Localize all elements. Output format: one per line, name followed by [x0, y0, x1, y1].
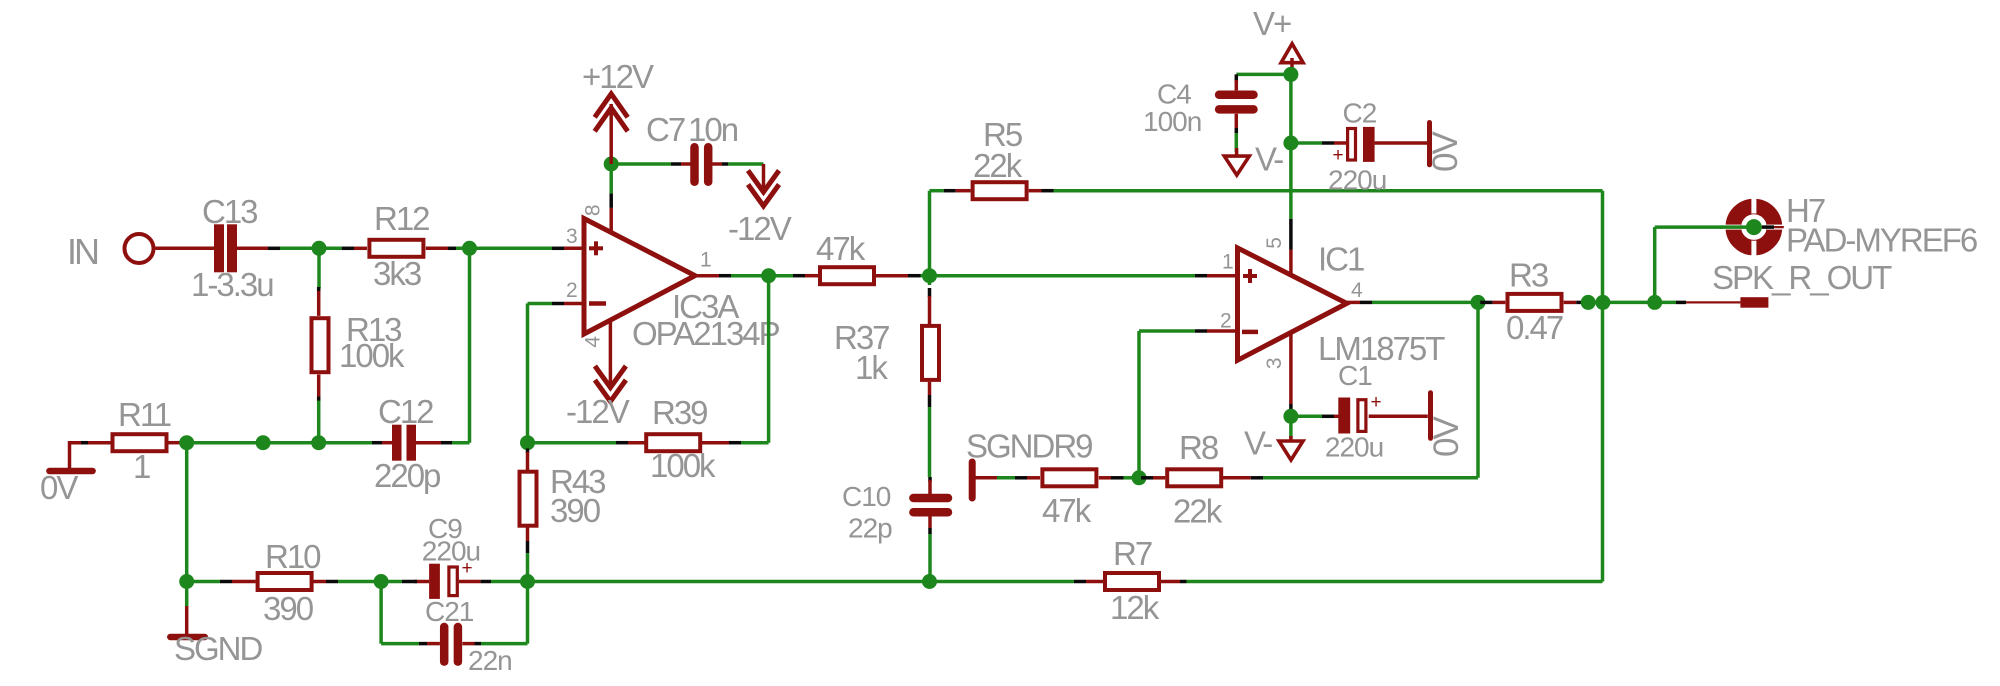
svg-text:-12V: -12V — [566, 393, 630, 430]
wire C21 left horizontal — [381, 642, 419, 646]
svg-text:R12: R12 — [374, 200, 429, 237]
terminal SPK_R_OUT stub — [1740, 297, 1768, 308]
svg-text:22k: 22k — [973, 147, 1023, 184]
pin C9 left — [414, 580, 429, 584]
svg-text:5: 5 — [1263, 238, 1286, 249]
junction C9 right node — [520, 574, 535, 589]
wire C4 to V- arrow — [1235, 133, 1239, 152]
pin C13 right — [237, 247, 268, 251]
wire node A up to R5 — [928, 191, 932, 276]
svg-text:0V: 0V — [1427, 416, 1466, 457]
ground SGND right symbol — [969, 462, 976, 498]
svg-text:2: 2 — [1220, 310, 1231, 333]
wire bottom rail to R7 — [930, 580, 1075, 584]
pin R43 bottom — [526, 528, 530, 542]
pin R3 right — [1564, 301, 1577, 305]
junction R11 node — [179, 435, 194, 450]
wire pin8 to V+ junction — [609, 164, 613, 193]
wire pin2 down to R39 node — [526, 304, 530, 443]
svg-text:22n: 22n — [468, 645, 512, 676]
wire into pad center — [1720, 225, 1754, 229]
capacitor C12 — [392, 425, 416, 461]
wire C12 to R12 node — [452, 441, 470, 445]
wire R3 to rail junction — [1589, 301, 1676, 305]
supply 0V right of C2 — [1427, 123, 1432, 165]
junction C10 bottom rail — [922, 574, 937, 589]
pin IC1 4 stub — [1347, 301, 1360, 305]
capacitor C21 — [444, 627, 458, 662]
svg-text:3: 3 — [566, 225, 577, 248]
svg-text:R39: R39 — [652, 394, 707, 431]
pin R5 right — [1029, 189, 1042, 193]
svg-text:4: 4 — [1351, 279, 1363, 302]
svg-text:3: 3 — [1263, 358, 1286, 369]
junction on lower rail — [256, 435, 271, 450]
svg-text:C4: C4 — [1157, 79, 1191, 110]
wire R13 to lower rail — [317, 401, 321, 443]
supply V- below pin3 — [1279, 436, 1303, 460]
svg-text:220p: 220p — [374, 457, 440, 494]
wire to IC1 pin2 — [1139, 329, 1195, 333]
pin IC1 5 stub — [1289, 250, 1293, 277]
wire R10 to C9 node — [338, 580, 402, 584]
svg-text:0V: 0V — [1426, 131, 1465, 172]
wire IN to C13 — [156, 247, 215, 251]
wire H7 branch right — [1655, 225, 1723, 229]
pin 8 stub — [609, 208, 613, 233]
wire junction to C2 — [1291, 141, 1322, 145]
wire 0V to R11 — [70, 441, 112, 445]
wire down to C21 line — [379, 582, 383, 644]
resistor R5 — [973, 182, 1027, 199]
svg-text:V-: V- — [1244, 425, 1272, 462]
svg-text:C13: C13 — [202, 193, 257, 230]
junction opamp output — [761, 268, 776, 283]
wire output to R3 — [1372, 301, 1480, 305]
svg-text:-12V: -12V — [728, 210, 792, 247]
svg-text:R10: R10 — [265, 538, 321, 575]
junction pad center — [1746, 219, 1762, 235]
wire junction down to C12 right — [468, 248, 472, 442]
pin IC1 3 stub — [1289, 333, 1293, 405]
resistor R8 — [1167, 469, 1221, 486]
pin C21 right — [462, 642, 474, 646]
svg-text:390: 390 — [550, 492, 601, 529]
svg-text:1k: 1k — [855, 349, 888, 386]
svg-text:R7: R7 — [1113, 535, 1152, 572]
wire feedback vertical up — [1476, 302, 1480, 477]
node A junction — [922, 268, 937, 283]
overlap C10 top — [928, 477, 932, 482]
junction R13 lower rail — [311, 435, 326, 450]
wire R9 to junction — [1124, 476, 1140, 480]
wire lower rail — [187, 441, 372, 445]
overlap pin8 — [609, 193, 613, 208]
pin 4 stub — [609, 320, 613, 365]
resistor R11 — [113, 434, 167, 451]
supply -12V arrow below — [595, 365, 626, 402]
overlap SPK — [1676, 301, 1686, 305]
junction after R3 — [1581, 295, 1596, 310]
pin R39 right — [701, 441, 729, 445]
svg-text:C12: C12 — [378, 393, 433, 430]
wire node down to R13 — [317, 255, 321, 289]
svg-text:1: 1 — [1222, 250, 1233, 273]
svg-text:+12V: +12V — [582, 58, 654, 95]
wire to pin3 — [456, 247, 552, 251]
svg-text:2: 2 — [566, 279, 577, 302]
pin R7 left — [1074, 580, 1086, 584]
wire C7 to -12V — [728, 162, 763, 166]
wire junction down to V- — [1289, 423, 1293, 439]
pin R12 left — [342, 247, 354, 251]
pin C2 right — [1375, 141, 1427, 145]
wire pin2 left — [528, 302, 553, 306]
junction SGND node — [179, 574, 194, 589]
svg-text:0.47: 0.47 — [1506, 309, 1563, 346]
svg-text:12k: 12k — [1110, 589, 1160, 626]
pin R43 top — [526, 449, 530, 454]
pin 2 stub — [552, 302, 564, 306]
pin C10 top — [928, 480, 932, 495]
resistor R43 — [520, 472, 537, 526]
wire R5 to right corner (top rail) — [1054, 189, 1603, 193]
svg-text:0V: 0V — [40, 469, 78, 506]
pin R39 left — [616, 441, 628, 445]
svg-text:1-3.3u: 1-3.3u — [191, 266, 273, 303]
wire node A to R37 — [928, 276, 932, 285]
supply 0V symbol — [49, 468, 92, 475]
svg-text:SGNDR9: SGNDR9 — [966, 428, 1092, 465]
pin R37 bottom — [928, 382, 932, 395]
pin H7 thin line — [1754, 226, 1784, 228]
wire R43 to bottom rail — [526, 553, 530, 644]
svg-text:47k: 47k — [1042, 492, 1092, 529]
svg-text:100k: 100k — [650, 447, 716, 484]
pin SGND — [185, 606, 189, 634]
svg-text:SGND: SGND — [174, 630, 263, 667]
svg-text:220u: 220u — [1325, 432, 1383, 463]
pin R37 top — [928, 288, 932, 297]
junction V+ node — [1283, 67, 1298, 82]
svg-text:PAD-MYREF6: PAD-MYREF6 — [1786, 222, 1977, 259]
pin C1 left — [1322, 415, 1334, 419]
wire R37 to C10 — [928, 407, 932, 477]
svg-text:R11: R11 — [118, 396, 171, 433]
svg-text:220u: 220u — [422, 536, 480, 567]
pin C21 left — [419, 642, 427, 646]
capacitor C10 — [913, 498, 948, 512]
pin R13 top — [317, 287, 321, 292]
wire C9 to node — [491, 580, 528, 584]
svg-text:220u: 220u — [1328, 165, 1386, 196]
svg-text:1: 1 — [133, 448, 150, 485]
pin R10 left — [220, 580, 232, 584]
pin R9 left — [1015, 476, 1027, 480]
ground SGND symbol — [170, 634, 205, 641]
resistor R13 — [312, 318, 329, 372]
wire SGND to R9 — [997, 476, 1015, 480]
svg-text:R3: R3 — [1509, 257, 1548, 294]
svg-text:390: 390 — [263, 590, 314, 627]
svg-text:V+: V+ — [1253, 5, 1291, 42]
resistor R39 — [646, 434, 700, 451]
svg-text:47k: 47k — [816, 230, 866, 267]
capacitor C2 — [1333, 127, 1375, 166]
junction output rail — [1595, 295, 1610, 310]
svg-text:10n: 10n — [688, 111, 738, 148]
wire right vertical rail — [1601, 191, 1605, 582]
pin R9 right — [1099, 476, 1111, 480]
svg-text:C10: C10 — [842, 481, 891, 512]
wire node A to IC1 pin1 — [930, 274, 1196, 278]
wire R12 to opamp node — [456, 247, 552, 251]
junction C1 node — [1283, 409, 1298, 424]
node junction at R12 input — [312, 241, 327, 256]
svg-text:22k: 22k — [1173, 493, 1223, 530]
capacitor C4 — [1219, 95, 1253, 110]
resistor R9 — [1042, 469, 1096, 486]
wire C13 to node — [280, 247, 342, 251]
wire SPK thin — [1686, 301, 1740, 303]
pin IC1 1 stub — [1195, 274, 1207, 278]
pin R11 right — [168, 441, 181, 445]
op-amp IC3A — [584, 219, 695, 335]
pin R12 right — [426, 247, 448, 251]
svg-text:C2: C2 — [1343, 98, 1377, 129]
pin R8 right — [1223, 476, 1251, 480]
wire bottom rail middle — [528, 580, 930, 584]
svg-text:R8: R8 — [1179, 429, 1218, 466]
wire R8 to feedback vertical — [1263, 476, 1478, 480]
junction C2 node — [1283, 136, 1298, 151]
pin SGND right — [975, 476, 997, 480]
wire SGND stub — [185, 582, 189, 607]
junction feedback takeoff — [1471, 295, 1486, 310]
supply V- below C4 — [1224, 148, 1249, 175]
pin R8 left — [1141, 476, 1153, 480]
wire junction to C7 — [618, 162, 671, 166]
supply V+ symbol — [1281, 44, 1303, 75]
junction R12 output — [462, 241, 477, 256]
resistor R10 — [258, 573, 312, 590]
pin C4 top — [1235, 74, 1239, 82]
supply +12V arrow — [595, 94, 628, 164]
wire corner to R5 left — [930, 189, 944, 193]
resistor R3 — [1508, 294, 1562, 311]
pin R3 left — [1480, 301, 1493, 305]
junction overlap — [268, 247, 280, 251]
svg-text:SPK_R_OUT: SPK_R_OUT — [1712, 259, 1892, 296]
resistor 47k — [820, 267, 874, 284]
wire node to R39 — [528, 441, 617, 445]
svg-text:IN: IN — [67, 231, 98, 272]
pad H7 — [1724, 197, 1784, 258]
capacitor C9 — [429, 558, 473, 599]
pin IC1 2 stub — [1195, 329, 1207, 333]
svg-text:100n: 100n — [1143, 106, 1201, 137]
pin C12 right — [416, 441, 441, 445]
wire H7 branch up — [1653, 227, 1657, 302]
op-amp IC1 — [1238, 248, 1347, 360]
wire R11 node down — [185, 443, 189, 582]
overlap — [81, 441, 88, 445]
overlap pad — [1762, 225, 1774, 229]
wire C10 to bottom rail — [928, 534, 932, 582]
resistor R7 — [1105, 573, 1159, 590]
capacitor C7 — [695, 147, 709, 181]
pin C9 right — [459, 580, 481, 584]
svg-text:22p: 22p — [848, 513, 892, 544]
junction +12V node — [604, 157, 619, 172]
pin 1 stub — [695, 274, 719, 278]
resistor R12 — [369, 240, 423, 257]
wire R39 to output vertical — [741, 441, 769, 445]
junction H7 branch — [1647, 295, 1662, 310]
pin C4 bottom — [1235, 114, 1239, 128]
supply 0V right of C1 — [1428, 393, 1433, 439]
pin C12 left — [372, 441, 382, 445]
pin C7 left — [671, 162, 681, 166]
wire junction to C1 — [1291, 415, 1322, 419]
pin C2 left — [1322, 141, 1334, 145]
svg-text:100k: 100k — [339, 337, 405, 374]
wire C21 to right vertical — [481, 642, 528, 646]
pin C7 right — [712, 162, 722, 166]
pin 3 stub — [552, 247, 564, 251]
capacitor C1 — [1338, 392, 1381, 434]
pin R7 right — [1161, 580, 1181, 584]
wire R7 to right rail — [1187, 580, 1603, 584]
svg-text:C21: C21 — [425, 596, 474, 627]
pin R13 bottom — [317, 375, 321, 397]
pin 47k right — [876, 274, 908, 278]
resistor R37 — [922, 326, 939, 380]
svg-text:C1: C1 — [1338, 360, 1372, 391]
wire V+ down — [1289, 74, 1293, 219]
wire V+ to C4 — [1236, 73, 1291, 77]
svg-text:+: + — [1333, 145, 1344, 166]
pin 47k left — [793, 274, 805, 278]
junction feedback node — [1132, 470, 1147, 485]
svg-text:3k3: 3k3 — [373, 255, 421, 292]
junction C9 left node — [374, 574, 389, 589]
svg-text:C7: C7 — [646, 111, 685, 148]
wire junction up to IC1 pin2 — [1137, 331, 1141, 478]
wire junction down to R39 right — [767, 276, 771, 443]
connector IN pad circle — [125, 234, 154, 263]
pin C10 bottom — [928, 517, 932, 529]
capacitor C13 — [214, 224, 237, 272]
pin R5 left — [944, 189, 956, 193]
svg-text:IC1: IC1 — [1318, 241, 1364, 278]
svg-text:4: 4 — [582, 336, 605, 348]
svg-text:8: 8 — [582, 205, 605, 216]
junction R39 node — [520, 435, 535, 450]
pin R10 right — [314, 580, 327, 584]
svg-text:+: + — [1371, 392, 1382, 413]
wire 47k to node A — [921, 274, 930, 278]
pin C1 right — [1369, 415, 1428, 419]
wire SGND node to R10 — [187, 580, 220, 584]
wire output to junction — [731, 274, 793, 278]
supply -12V arrow right — [748, 164, 779, 206]
svg-text:V-: V- — [1255, 141, 1283, 178]
svg-text:1: 1 — [700, 249, 711, 272]
svg-text:OPA2134P: OPA2134P — [632, 315, 780, 352]
